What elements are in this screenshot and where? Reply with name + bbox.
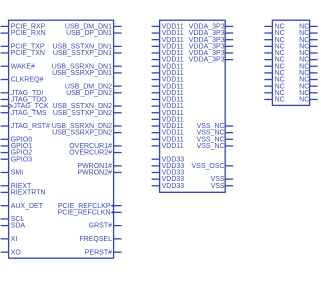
pin FREQSEL (U1A row 32 R) <box>79 236 121 243</box>
pin VDD11 (U1B row 17 L) <box>152 136 184 143</box>
pin XO (U1A row 34 L) <box>1 249 22 256</box>
pin VDD33 (U1B row 21 L) <box>152 163 185 170</box>
svg-text:VSS_NC: VSS_NC <box>197 143 225 150</box>
svg-text:JTAG_TMS: JTAG_TMS <box>11 110 47 117</box>
pin VDD11 (U1B row 16 L) <box>152 130 184 137</box>
IC body U1B (power block) <box>160 20 226 192</box>
pin NC (U1C row 3 R) <box>299 43 317 50</box>
svg-text:NC: NC <box>275 97 285 104</box>
pin PERST# (U1A row 34 R) <box>85 249 122 256</box>
svg-text:XO: XO <box>11 249 22 256</box>
pin VDD33 (U1B row 22 L) <box>152 170 185 177</box>
svg-text:USB_DP_DN2: USB_DP_DN2 <box>66 90 112 97</box>
pin NC (U1C row 6 L) <box>264 63 284 70</box>
pin NC (U1C row 9 L) <box>264 83 284 90</box>
pin VDD11 (U1B row 9 L) <box>152 83 184 90</box>
pin VDDA_3P3 (U1B row 1 R) <box>189 30 233 37</box>
pin USB_DM_DN2 (U1A row 9 R) <box>65 83 122 90</box>
pin NC (U1C row 11 R) <box>299 97 317 104</box>
svg-text:VDDA_3P3: VDDA_3P3 <box>189 57 225 64</box>
pin VDDA_3P3 (U1B row 3 R) <box>189 43 233 50</box>
pin USB_SSTXP_DN1 (U1A row 4 R) <box>53 50 122 57</box>
pin VSS_NC (U1B row 15 R) <box>197 123 234 130</box>
pin AUX_DET (U1A row 27 L) <box>1 203 44 210</box>
svg-text:OVERCUR2#: OVERCUR2# <box>69 150 112 157</box>
svg-text:VDD11: VDD11 <box>162 143 184 150</box>
pin NC (U1C row 11 L) <box>264 97 284 104</box>
pin GRST# (U1A row 30 R) <box>89 223 122 230</box>
pin NC (U1C row 3 L) <box>264 43 284 50</box>
svg-text:USB_SSTXP_DN1: USB_SSTXP_DN1 <box>53 50 112 57</box>
pin VDDA_3P3 (U1B row 5 R) <box>189 57 233 64</box>
svg-text:NC: NC <box>299 97 309 104</box>
IC body U1A (main signal block) <box>9 20 114 258</box>
pin NC (U1C row 9 R) <box>299 83 317 90</box>
pin USB_DP_DN1 (U1A row 1 R) <box>66 30 122 37</box>
pin VDD11 (U1B row 10 L) <box>152 90 184 97</box>
pin PCIE_TXP (U1A row 3 L) <box>1 43 45 50</box>
pin VDD11 (U1B row 8 L) <box>152 77 184 84</box>
pin VDD11 (U1B row 14 L) <box>152 116 184 123</box>
pin VSS_NC (U1B row 18 R) <box>197 143 234 150</box>
svg-text:SMI: SMI <box>11 170 24 177</box>
pin PCIE_TXN (U1A row 4 L) <box>1 50 45 57</box>
pin VDD11 (U1B row 13 L) <box>152 110 184 117</box>
svg-text:PERST#: PERST# <box>85 249 112 256</box>
pin USB_DP_DN2 (U1A row 10 R) <box>66 90 122 97</box>
pin VDDA_3P3 (U1B row 0 R) <box>189 24 233 31</box>
pin VDD11 (U1B row 2 L) <box>152 37 184 44</box>
pin NC (U1C row 1 L) <box>264 30 284 37</box>
pin CLKREQ# (U1A row 8 L) <box>1 77 44 84</box>
pin GPIO1 (U1A row 18 L) <box>1 143 33 150</box>
pin OVERCUR1# (U1A row 18 R) <box>69 143 121 150</box>
pin VSS (U1B row 24 R) <box>211 183 234 190</box>
svg-text:CLKREQ#: CLKREQ# <box>11 77 44 84</box>
svg-text:VSS_OSC: VSS_OSC <box>192 163 225 170</box>
pin USB_SSRXP_DN2 (U1A row 16 R) <box>52 130 122 137</box>
pin SCL (U1A row 29 L) <box>1 216 25 223</box>
svg-text:WAKE#: WAKE# <box>11 63 35 70</box>
IC body U1C (NC block) <box>272 20 309 105</box>
pin USB_SSTXN_DN2 (U1A row 12 R) <box>52 103 121 110</box>
pin VDD11 (U1B row 4 L) <box>152 50 184 57</box>
pin SMI (U1A row 22 L) <box>1 170 24 177</box>
pin NC (U1C row 8 R) <box>299 77 317 84</box>
pin OVERCUR2# (U1A row 19 R) <box>69 150 121 157</box>
svg-text:USB_SSRXP_DN2: USB_SSRXP_DN2 <box>52 130 112 137</box>
pin JTAG_RST# (U1A row 15 L) <box>1 123 50 130</box>
svg-text:RIEXTRTN: RIEXTRTN <box>11 190 46 197</box>
svg-text:VSS: VSS <box>211 183 225 190</box>
svg-text:GRST#: GRST# <box>89 223 112 230</box>
svg-text:AUX_DET: AUX_DET <box>11 203 44 210</box>
pin VDDA_3P3 (U1B row 2 R) <box>189 37 233 44</box>
pin NC (U1C row 4 L) <box>264 50 284 57</box>
pin NC (U1C row 6 R) <box>299 63 317 70</box>
pin JTAG_TDI (U1A row 10 L) <box>1 90 44 97</box>
pin VDD11 (U1B row 5 L) <box>152 57 184 64</box>
pin JTAG_TMS (U1A row 13 L) <box>1 110 47 117</box>
svg-text:SDA: SDA <box>11 223 26 230</box>
pin XI (U1A row 32 L) <box>1 236 18 243</box>
pin VDD33 (U1B row 23 L) <box>152 176 185 183</box>
pin NC (U1C row 10 L) <box>264 90 284 97</box>
svg-text:XI: XI <box>11 236 18 243</box>
pin VDD11 (U1B row 3 L) <box>152 43 184 50</box>
pin VDD11 (U1B row 0 L) <box>152 24 184 31</box>
pin VDD11 (U1B row 15 L) <box>152 123 184 130</box>
svg-text:GPIO3: GPIO3 <box>11 156 33 163</box>
pin VDD11 (U1B row 18 L) <box>152 143 184 150</box>
pin WAKE# (U1A row 6 L) <box>1 63 35 70</box>
pin PCIE_RXP (U1A row 0 L) <box>1 24 46 31</box>
svg-text:PCIE_TXN: PCIE_TXN <box>11 50 45 57</box>
pin PWRON2# (U1A row 22 R) <box>77 170 121 177</box>
pin GPIO0 (U1A row 17 L) <box>1 136 33 143</box>
pin VSS (U1B row 23 R) <box>211 176 234 183</box>
pin VSS_NC (U1B row 17 R) <box>197 136 234 143</box>
pin NC (U1C row 2 R) <box>299 37 317 44</box>
pin NC (U1C row 0 L) <box>264 24 284 31</box>
pin VDD11 (U1B row 11 L) <box>152 97 184 104</box>
svg-text:PCIE_REFCLKN: PCIE_REFCLKN <box>58 209 111 216</box>
svg-text:FREQSEL: FREQSEL <box>79 236 112 243</box>
svg-text:VDD33: VDD33 <box>162 183 185 190</box>
pin NC (U1C row 10 R) <box>299 90 317 97</box>
pin PWRON1# (U1A row 21 R) <box>77 163 121 170</box>
pin PCIE_RXN (U1A row 1 L) <box>1 30 46 37</box>
pin USB_SSRXP_DN1 (U1A row 7 R) <box>52 70 122 77</box>
pin NC (U1C row 2 L) <box>264 37 284 44</box>
pin NC (U1C row 5 R) <box>299 57 317 64</box>
svg-text:USB_SSRXP_DN1: USB_SSRXP_DN1 <box>52 70 112 77</box>
pin USB_SSRXN_DN1 (U1A row 6 R) <box>52 63 122 70</box>
pin GPIO3 (U1A row 20 L) <box>1 156 33 163</box>
pin USB_SSTXN_DN1 (U1A row 3 R) <box>52 43 121 50</box>
svg-text:PWRON2#: PWRON2# <box>77 170 112 177</box>
pin GPIO2 (U1A row 19 L) <box>1 150 33 157</box>
pin PCIE_REFCLKN (U1A row 28 R) <box>58 209 122 216</box>
pin RIEXT (U1A row 24 L) <box>1 183 32 190</box>
svg-text:JTAG_RST#: JTAG_RST# <box>11 123 50 130</box>
pin SDA (U1A row 30 L) <box>1 223 26 230</box>
pin VDD11 (U1B row 12 L) <box>152 103 184 110</box>
pin JTAG_TDO (U1A row 11 L) <box>1 97 48 104</box>
pin VDD33 (U1B row 20 L) <box>152 156 185 163</box>
pin NC (U1C row 4 R) <box>299 50 317 57</box>
pin NC (U1C row 7 R) <box>299 70 317 77</box>
pin RIEXTRTN (U1A row 25 L) <box>1 190 46 197</box>
pin VDD33 (U1B row 24 L) <box>152 183 185 190</box>
svg-text:USB_SSTXP_DN2: USB_SSTXP_DN2 <box>53 110 112 117</box>
pin USB_SSTXP_DN2 (U1A row 13 R) <box>53 110 122 117</box>
pin NC (U1C row 7 L) <box>264 70 284 77</box>
pin NC (U1C row 8 L) <box>264 77 284 84</box>
pin VSS_OSC (U1B row 21 R) <box>192 163 234 170</box>
pin JTAG_TCK (U1A row 12 L) <box>1 103 49 110</box>
svg-text:USB_DP_DN1: USB_DP_DN1 <box>66 30 112 37</box>
pin VDD11 (U1B row 7 L) <box>152 70 184 77</box>
pin USB_SSRXN_DN2 (U1A row 15 R) <box>52 123 122 130</box>
pin VSS_NC (U1B row 16 R) <box>197 130 234 137</box>
pin VDD11 (U1B row 1 L) <box>152 30 184 37</box>
pin VDDA_3P3 (U1B row 4 R) <box>189 50 233 57</box>
pin NC (U1C row 1 R) <box>299 30 317 37</box>
pin VDD11 (U1B row 6 L) <box>152 63 184 70</box>
pin NC (U1C row 5 L) <box>264 57 284 64</box>
svg-text:PCIE_RXN: PCIE_RXN <box>11 30 46 37</box>
pin NC (U1C row 0 R) <box>299 24 317 31</box>
pin USB_DM_DN1 (U1A row 0 R) <box>65 24 122 31</box>
pin PCIE_REFCLKP (U1A row 27 R) <box>58 203 122 210</box>
